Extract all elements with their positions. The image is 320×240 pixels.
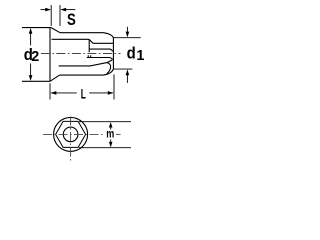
end view vertical centerline — [70, 117, 72, 163]
m dimension stem bottom — [110, 140, 112, 143]
svg-text:S: S — [67, 11, 76, 29]
d1 extension line top — [113, 37, 140, 39]
closed-end dome arc — [107, 63, 111, 74]
hex-to-tail step top diagonal — [89, 39, 93, 43]
thread bottom line — [87, 58, 113, 60]
flange top line with d2 top extension — [22, 27, 51, 29]
hex flat top line — [52, 38, 89, 40]
S arrowhead right (points left) — [60, 8, 66, 12]
right face — [112, 38, 114, 69]
thread top line — [89, 49, 112, 51]
bore bottom line with slope to tail — [59, 63, 107, 66]
svg-text:2: 2 — [31, 49, 39, 65]
L dimension line left part — [51, 92, 77, 94]
d1 extension line bottom — [113, 68, 132, 70]
d2 arrowhead down — [29, 75, 33, 81]
L arrowhead right — [108, 91, 114, 95]
S extension line left — [50, 5, 52, 26]
bottom chamfer — [50, 75, 60, 81]
L extension line right — [113, 74, 115, 99]
thread boundary vertical — [88, 39, 90, 52]
S arrowhead left (points right) — [45, 8, 51, 12]
svg-text:1: 1 — [136, 48, 144, 64]
d1 dimension stem top — [126, 27, 128, 33]
m extension line top — [79, 121, 131, 123]
top chamfer — [51, 28, 60, 33]
left face — [49, 28, 51, 82]
body top line — [60, 32, 104, 34]
tail top line — [93, 42, 113, 44]
m arrowhead down — [109, 142, 113, 148]
end view outer circle (flange) — [54, 117, 88, 151]
bore fork up to face — [107, 60, 112, 63]
end view hexagon — [56, 121, 86, 147]
m arrowhead up — [109, 122, 113, 128]
flange bottom line with d2 bottom extension — [22, 80, 50, 82]
top-right rounded corner — [104, 33, 114, 38]
d1 arrowhead down (top) — [126, 32, 130, 38]
d2 arrowhead up — [29, 28, 33, 34]
body bottom line — [60, 74, 104, 76]
thread runout notch right — [90, 55, 92, 57]
d1 dimension stem bottom — [126, 74, 128, 83]
L arrowhead left — [51, 91, 57, 95]
S dimension line right part — [62, 9, 76, 11]
svg-text:d: d — [127, 43, 136, 62]
S dimension line left part — [41, 9, 51, 11]
L dimension line right part — [89, 92, 113, 94]
end view horizontal centerline — [43, 133, 104, 135]
m dimension stem top — [110, 127, 112, 130]
thread runout notch left — [87, 55, 89, 57]
end view inner circle (bore) — [63, 127, 78, 142]
d2 dimension stem bottom — [30, 64, 32, 77]
S extension line right — [59, 5, 61, 26]
svg-text:L: L — [81, 86, 86, 102]
m extension line bottom — [79, 147, 131, 149]
side view centerline — [41, 53, 121, 55]
bottom-right rounded corner — [104, 69, 114, 75]
d2 dimension stem top — [30, 33, 32, 46]
svg-text:m: m — [106, 127, 114, 141]
L extension line left — [49, 83, 51, 99]
d1 arrowhead up (bottom) — [126, 69, 130, 75]
